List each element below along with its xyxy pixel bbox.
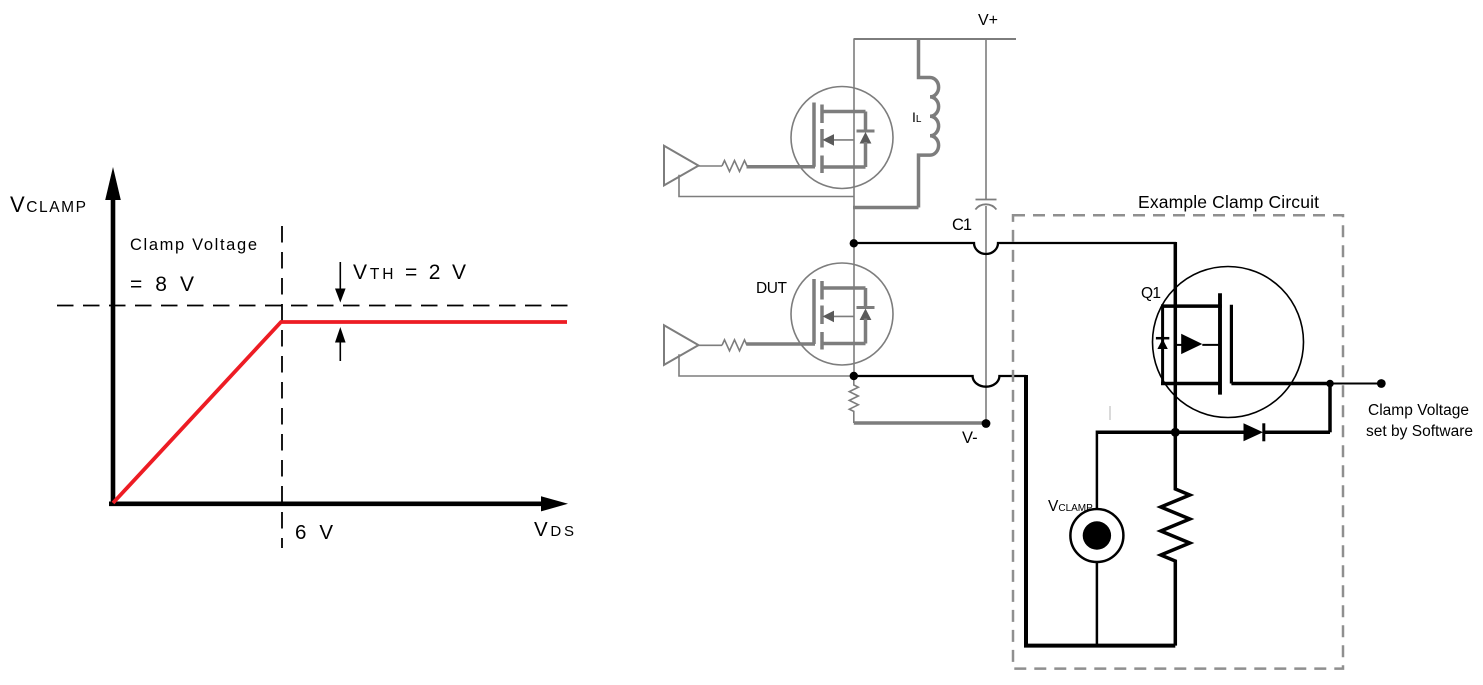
- wire: junction row1 down through DUT: [853, 243, 855, 376]
- svg-text:C1: C1: [952, 216, 972, 234]
- node C: output junction dot: [1326, 380, 1334, 388]
- wire: V+ rail down to top FET drain: [853, 39, 855, 243]
- dashed vertical line (6 V): [281, 226, 283, 548]
- faint stray tick: [1109, 406, 1111, 420]
- dimension arrow up (V_TH): [335, 327, 346, 361]
- svg-text:set by Software: set by Software: [1366, 423, 1473, 440]
- gate resistor (top): [722, 161, 747, 172]
- node B: source junction dot (row 2): [850, 372, 858, 380]
- wire: output node down to diode row: [1328, 384, 1332, 433]
- capacitor C1 bottom wire: [985, 206, 987, 423]
- resistor R1 (clamp resistor): [1161, 432, 1190, 645]
- wire resistor to top FET gate: [747, 165, 816, 169]
- transistor Q1 (clamp FET): [1153, 267, 1304, 418]
- red V-I curve: [113, 322, 567, 503]
- svg-text:= 8 V: = 8 V: [130, 273, 194, 296]
- wire: output node to terminal: [1330, 383, 1381, 385]
- wire: Q1 gate to output node: [1231, 382, 1330, 386]
- wire: top FET source to inductor bottom: [853, 206, 919, 210]
- wire row2 vertical down inside box: [1026, 375, 1175, 646]
- feedback wire DUT buffer: [679, 354, 850, 376]
- wire: V_CLAMP source bottom lead: [1096, 562, 1099, 646]
- dashed level line (8 V): [57, 305, 571, 307]
- x-axis (V_DS axis): [109, 496, 568, 511]
- buffer U_dut (DUT gate driver triangle): [664, 325, 699, 365]
- dimension arrow down (V_TH): [335, 262, 346, 303]
- gate resistor (DUT): [722, 340, 747, 351]
- dashed clamp box: [1013, 215, 1343, 668]
- node V- junction dot: [982, 419, 991, 428]
- capacitor C1: [975, 200, 996, 210]
- svg-text:Clamp Voltage: Clamp Voltage: [1368, 402, 1469, 419]
- node A: drain junction dot (row 1): [850, 239, 858, 247]
- y-axis (V_CLAMP axis): [105, 167, 121, 506]
- feedback wire top buffer: [679, 175, 854, 197]
- wire: diode row (gate bias row): [1097, 431, 1245, 435]
- node D: junction dot on diode row: [1171, 428, 1180, 437]
- source V_CLAMP (circle with dot): [1070, 509, 1123, 562]
- svg-text:Example Clamp Circuit: Example Clamp Circuit: [1138, 192, 1319, 212]
- mosfet DUT: [791, 263, 893, 365]
- svg-text:V+: V+: [978, 12, 998, 29]
- wire row2: source node into clamp box with hop over C1 wire: [854, 376, 1026, 387]
- mosfet M_top (high-side FET): [791, 87, 893, 189]
- V+ rail: [854, 38, 1017, 40]
- wire triangle to gate resistor: [699, 165, 723, 167]
- buffer U_top (gate driver triangle): [664, 146, 699, 186]
- svg-text:DUT: DUT: [756, 280, 788, 297]
- wire: Q1 drain feed vertical: [1174, 242, 1178, 432]
- wire: V_CLAMP source top lead: [1096, 431, 1099, 510]
- svg-text:Q1: Q1: [1141, 285, 1161, 302]
- svg-text:Clamp Voltage: Clamp Voltage: [130, 236, 257, 254]
- terminal dot: [1377, 379, 1386, 388]
- diode D1: [1244, 423, 1264, 441]
- svg-text:6 V: 6 V: [295, 521, 333, 544]
- svg-text:V-: V-: [962, 429, 978, 447]
- inductor IL: [919, 39, 939, 208]
- wire: sense resistor to V- node: [854, 421, 986, 425]
- wire row1: drain node to clamp circuit with hop over C1 wire: [854, 243, 1176, 254]
- wire triangle to DUT gate resistor: [699, 344, 723, 346]
- capacitor C1 top wire: [985, 39, 987, 199]
- sense resistor below DUT: [849, 376, 858, 423]
- wire resistor to DUT gate: [747, 342, 816, 346]
- wire: diode to output drop: [1264, 431, 1330, 435]
